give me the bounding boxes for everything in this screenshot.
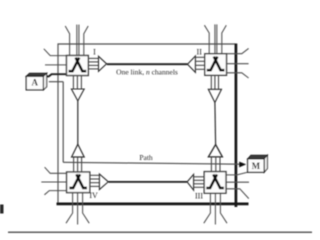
router II box (205, 54, 227, 76)
node IV external channels (left) (41, 167, 66, 195)
node I external channels (left) (44, 49, 67, 65)
router I box (67, 56, 89, 76)
host M box 3d top face (248, 155, 268, 159)
node I external channels (top) (65, 25, 88, 56)
link IV to III: bundle into III (194, 177, 204, 188)
router I crossbar glyph (69, 58, 87, 72)
link I to IV: up arrowhead above IV (72, 144, 85, 157)
path overlay: jog below A (49, 81, 63, 83)
link IV to III: thick middle line (109, 181, 188, 183)
router III box (204, 172, 226, 194)
host A box front face (26, 76, 43, 90)
link II to III: bundle into III (211, 157, 220, 172)
node II external channels (right) (227, 48, 249, 78)
node II external channels (top) (204, 24, 226, 53)
svg-text:IV: IV (89, 191, 98, 200)
host A box 3d right face (43, 73, 46, 90)
link I to II: left arrowhead near II (188, 56, 196, 72)
svg-text:M: M (252, 161, 261, 171)
host A box 3d top face (26, 73, 47, 76)
host M box 3d right face (264, 155, 267, 172)
path from A: injection line into router I (thick) (44, 74, 68, 76)
link II to III: bundle below II (211, 75, 218, 89)
path arrowhead into M (239, 162, 246, 168)
link II to III: down arrowhead below II (208, 89, 221, 102)
link I to IV: bundle below I (73, 76, 81, 89)
router IV box (67, 172, 90, 193)
router III crossbar glyph (206, 174, 224, 188)
link II to III: middle line (214, 103, 217, 145)
outer mesh frame top edge (58, 43, 236, 45)
svg-text:I: I (93, 47, 96, 56)
router II crossbar glyph (207, 57, 225, 71)
link I to II: right arrowhead near I (99, 56, 107, 71)
link I to IV: down arrowhead below I (71, 89, 84, 101)
link IV to III: bundle out of IV (90, 175, 99, 186)
link II to III: up arrowhead above III (208, 145, 222, 157)
svg-text:II: II (197, 48, 203, 57)
outer mesh frame right edge (thick) (235, 44, 238, 208)
path overlay: horizontal run to M (63, 162, 240, 164)
link I to IV: middle line (77, 101, 79, 144)
left edge scan artifact (0, 205, 4, 214)
link I to II: channel bundle into II (196, 57, 205, 69)
svg-text:III: III (195, 191, 203, 200)
svg-text:Path: Path (139, 153, 153, 162)
node III external channels (right, to M and flares) (226, 172, 249, 198)
outer mesh frame left edge (57, 44, 59, 205)
host M box front face (248, 159, 265, 172)
node III external channels (bottom) (204, 193, 227, 224)
link I to II: channel bundle out of I (88, 58, 98, 69)
node IV external channels (bottom) (66, 193, 89, 225)
link IV to III: right arrowhead near IV (99, 174, 108, 190)
bottom horizontal rule (8, 231, 312, 233)
svg-text:A: A (31, 78, 38, 88)
link I to II: thick middle line (one link) (107, 63, 188, 65)
link IV to III: left arrowhead near III (187, 174, 194, 190)
router IV crossbar glyph (69, 174, 87, 188)
outer mesh frame bottom edge (thick) (57, 202, 249, 205)
svg-text:One link, n channels: One link, n channels (116, 68, 178, 77)
link I to IV: bundle into IV (74, 157, 82, 172)
path overlay: vertical descent (62, 82, 64, 163)
